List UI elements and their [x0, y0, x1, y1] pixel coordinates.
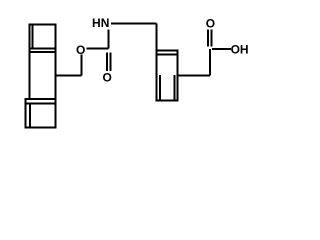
phenyl ring top edge	[156, 49, 179, 51]
fluorene ring C outer left edge	[25, 99, 27, 128]
fluorene ring C inner double bond (left)	[29, 104, 31, 128]
fluorene ring C top double bond inner line	[25, 103, 57, 105]
svg-text:O: O	[206, 17, 215, 31]
svg-text:OH: OH	[231, 43, 249, 57]
carbamate C=O double bond line 2	[109, 53, 111, 71]
fluorene ring A / ring B shared edge	[28, 51, 56, 53]
bond carboxyl C to OH	[212, 48, 231, 50]
phenyl ring lower-left double bond inner line	[159, 75, 161, 100]
carboxyl C=O double bond line 1	[207, 30, 209, 47]
svg-text:HN: HN	[92, 16, 109, 30]
bond carbamate C to N	[108, 30, 110, 49]
bond N to benzyl CH2	[111, 22, 157, 24]
phenyl ring lower-right double bond inner line	[174, 75, 176, 100]
phenyl ring top double bond inner line	[156, 53, 179, 55]
fluorene ring C bottom edge	[25, 126, 57, 128]
carboxyl C=O double bond line 2	[211, 30, 213, 47]
svg-text:O: O	[103, 70, 112, 84]
bond CH2 to O ester	[80, 55, 82, 76]
bond phenyl to acetic CH2	[178, 74, 210, 76]
bond CH2 to carboxyl C	[209, 49, 211, 75]
fluorene ring A left edge	[28, 25, 30, 100]
fluorene right edge	[54, 25, 56, 129]
fluorene top edge	[28, 24, 56, 26]
fluorene ring B / ring C shared edge	[25, 98, 57, 100]
bond O to carbamate C	[86, 48, 108, 50]
fluorene ring A bottom double bond inner line	[28, 47, 56, 49]
bond fluorene C9 to CH2	[55, 74, 81, 76]
carbamate C=O double bond line 1	[106, 53, 108, 71]
fluorene ring A inner double bond (left)	[31, 25, 33, 49]
phenyl ring left edge	[156, 50, 158, 100]
svg-text:O: O	[76, 43, 85, 57]
phenyl ring bottom edge	[156, 99, 179, 101]
bond CH2 to phenyl ring	[156, 23, 158, 50]
phenyl ring right edge	[177, 50, 179, 100]
